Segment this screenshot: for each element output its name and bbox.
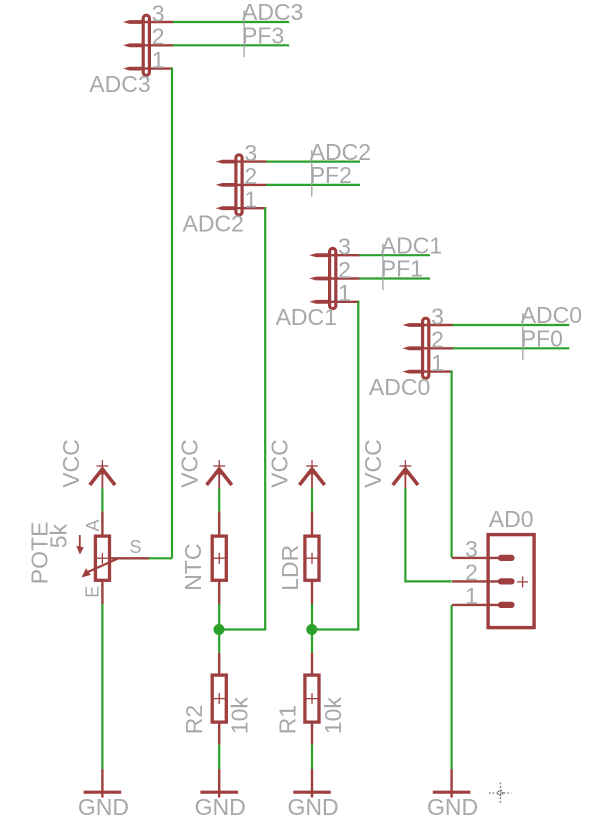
svg-text:2: 2 [431, 327, 444, 353]
svg-text:ADC1: ADC1 [381, 232, 442, 258]
svg-text:1: 1 [431, 350, 444, 376]
svg-text:2: 2 [338, 257, 351, 283]
svg-text:2: 2 [465, 560, 478, 586]
svg-text:ADC2: ADC2 [183, 210, 244, 236]
svg-text:VCC: VCC [176, 439, 202, 488]
svg-text:1: 1 [244, 187, 257, 213]
svg-text:10k: 10k [320, 697, 346, 735]
svg-text:3: 3 [431, 303, 444, 329]
svg-text:5k: 5k [45, 524, 71, 549]
svg-text:ADC1: ADC1 [276, 304, 337, 330]
svg-text:ADC3: ADC3 [242, 0, 303, 25]
svg-text:GND: GND [427, 794, 478, 820]
svg-text:10k: 10k [227, 697, 253, 735]
svg-text:A: A [83, 519, 103, 531]
svg-text:VCC: VCC [58, 439, 84, 488]
svg-text:ADC0: ADC0 [369, 374, 430, 400]
svg-text:1: 1 [152, 47, 165, 73]
svg-text:2: 2 [244, 163, 257, 189]
svg-text:ADC2: ADC2 [310, 139, 371, 165]
svg-text:GND: GND [78, 794, 129, 820]
svg-text:2: 2 [152, 24, 165, 50]
svg-text:3: 3 [244, 140, 257, 166]
svg-text:1: 1 [338, 280, 351, 306]
svg-text:R2: R2 [181, 705, 207, 734]
svg-text:NTC: NTC [180, 544, 206, 591]
svg-text:PF3: PF3 [242, 23, 284, 49]
svg-text:ADC0: ADC0 [521, 302, 582, 328]
svg-text:AD0: AD0 [489, 506, 534, 532]
svg-text:3: 3 [338, 234, 351, 260]
svg-text:GND: GND [195, 794, 246, 820]
svg-text:PF2: PF2 [310, 162, 352, 188]
svg-text:E: E [82, 586, 102, 598]
svg-text:R1: R1 [274, 705, 300, 734]
svg-text:PF0: PF0 [521, 326, 563, 352]
svg-text:GND: GND [287, 794, 338, 820]
svg-text:VCC: VCC [267, 439, 293, 488]
svg-text:ADC3: ADC3 [89, 71, 150, 97]
svg-text:1: 1 [465, 583, 478, 609]
svg-text:3: 3 [465, 536, 478, 562]
svg-text:3: 3 [152, 0, 165, 26]
svg-text:PF1: PF1 [381, 256, 423, 282]
svg-text:S: S [130, 537, 142, 557]
svg-text:LDR: LDR [277, 545, 303, 591]
svg-text:VCC: VCC [360, 439, 386, 488]
